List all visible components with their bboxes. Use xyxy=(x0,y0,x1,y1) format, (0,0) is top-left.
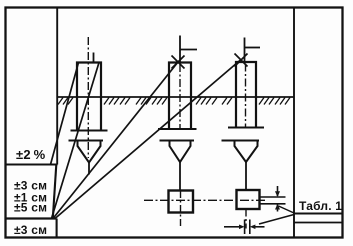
section 1 funnel plate xyxy=(69,140,104,142)
leader ±3 см to section 1 top xyxy=(52,63,100,219)
depth dimension arrows xyxy=(277,186,279,196)
horizontal axis through seed cells (dash-dot) xyxy=(144,199,267,201)
section 2 shank box xyxy=(169,63,191,130)
section 1 upper plate xyxy=(71,130,108,132)
ground hatching xyxy=(58,98,290,105)
svg-text:±3 см: ±3 см xyxy=(14,223,47,237)
section 3 datum line xyxy=(244,38,246,63)
section 3 arrow cross xyxy=(235,54,248,67)
section 3 lower axis (dash-dot) xyxy=(245,210,247,229)
table block line under Табл. 1 xyxy=(294,213,343,215)
leader from ±2% to section 1 xyxy=(51,63,79,165)
depth spread extension lines xyxy=(260,196,286,198)
section 2 axis (dash-dot) xyxy=(179,64,181,128)
leader ±1 см to section 2 arrow xyxy=(53,62,178,219)
section 3 seed cell square xyxy=(237,190,260,209)
lateral spread extension ticks xyxy=(244,220,246,235)
bottom label cell right edge xyxy=(56,219,58,238)
leader Табл.1 to depth dimension xyxy=(279,206,295,213)
section 1 drop tube xyxy=(88,163,90,175)
label cell line under ±2% xyxy=(6,163,58,165)
section 1 funnel xyxy=(78,141,101,163)
inner frame left vertical xyxy=(56,8,58,165)
section 3 axis (dash-dot) xyxy=(245,64,247,128)
section 2 drop tube xyxy=(179,162,181,191)
inner frame right vertical xyxy=(293,8,295,238)
section 1 shank box xyxy=(77,63,101,131)
section 2 datum line xyxy=(179,36,181,63)
svg-text:±5 см: ±5 см xyxy=(14,201,47,215)
section 2 upper plate xyxy=(158,128,197,130)
section 3 datum tick xyxy=(245,47,261,49)
leader Табл.1 to lateral dimension xyxy=(259,215,294,225)
table block second line xyxy=(294,222,343,224)
section 3 upper plate xyxy=(228,127,264,129)
section 2 arrow cross xyxy=(172,56,185,69)
svg-text:Табл. 1: Табл. 1 xyxy=(299,199,342,213)
section 2 datum tick xyxy=(180,49,197,51)
section 2 funnel plate xyxy=(160,140,195,142)
section 2 seed cell square xyxy=(169,191,194,213)
section 3 drop tube xyxy=(245,162,247,190)
section 3 funnel xyxy=(235,141,258,163)
section 3 funnel plate xyxy=(222,140,260,142)
section 1 stub line xyxy=(93,53,95,63)
label cell right edge (±3/±1/±5) xyxy=(53,165,57,219)
section 3 shank box xyxy=(236,62,256,128)
lateral dimension arrows xyxy=(224,226,240,228)
svg-text:±2 %: ±2 % xyxy=(16,147,46,162)
section 1 axis (dash-dot) xyxy=(87,37,89,158)
ground line xyxy=(57,96,294,98)
section 2 lower axis (dash-dot) xyxy=(180,191,182,227)
section 2 funnel xyxy=(170,141,191,163)
label cell line under ±5 см xyxy=(6,217,57,219)
leader ±5 см to section 3 arrow xyxy=(55,60,241,219)
